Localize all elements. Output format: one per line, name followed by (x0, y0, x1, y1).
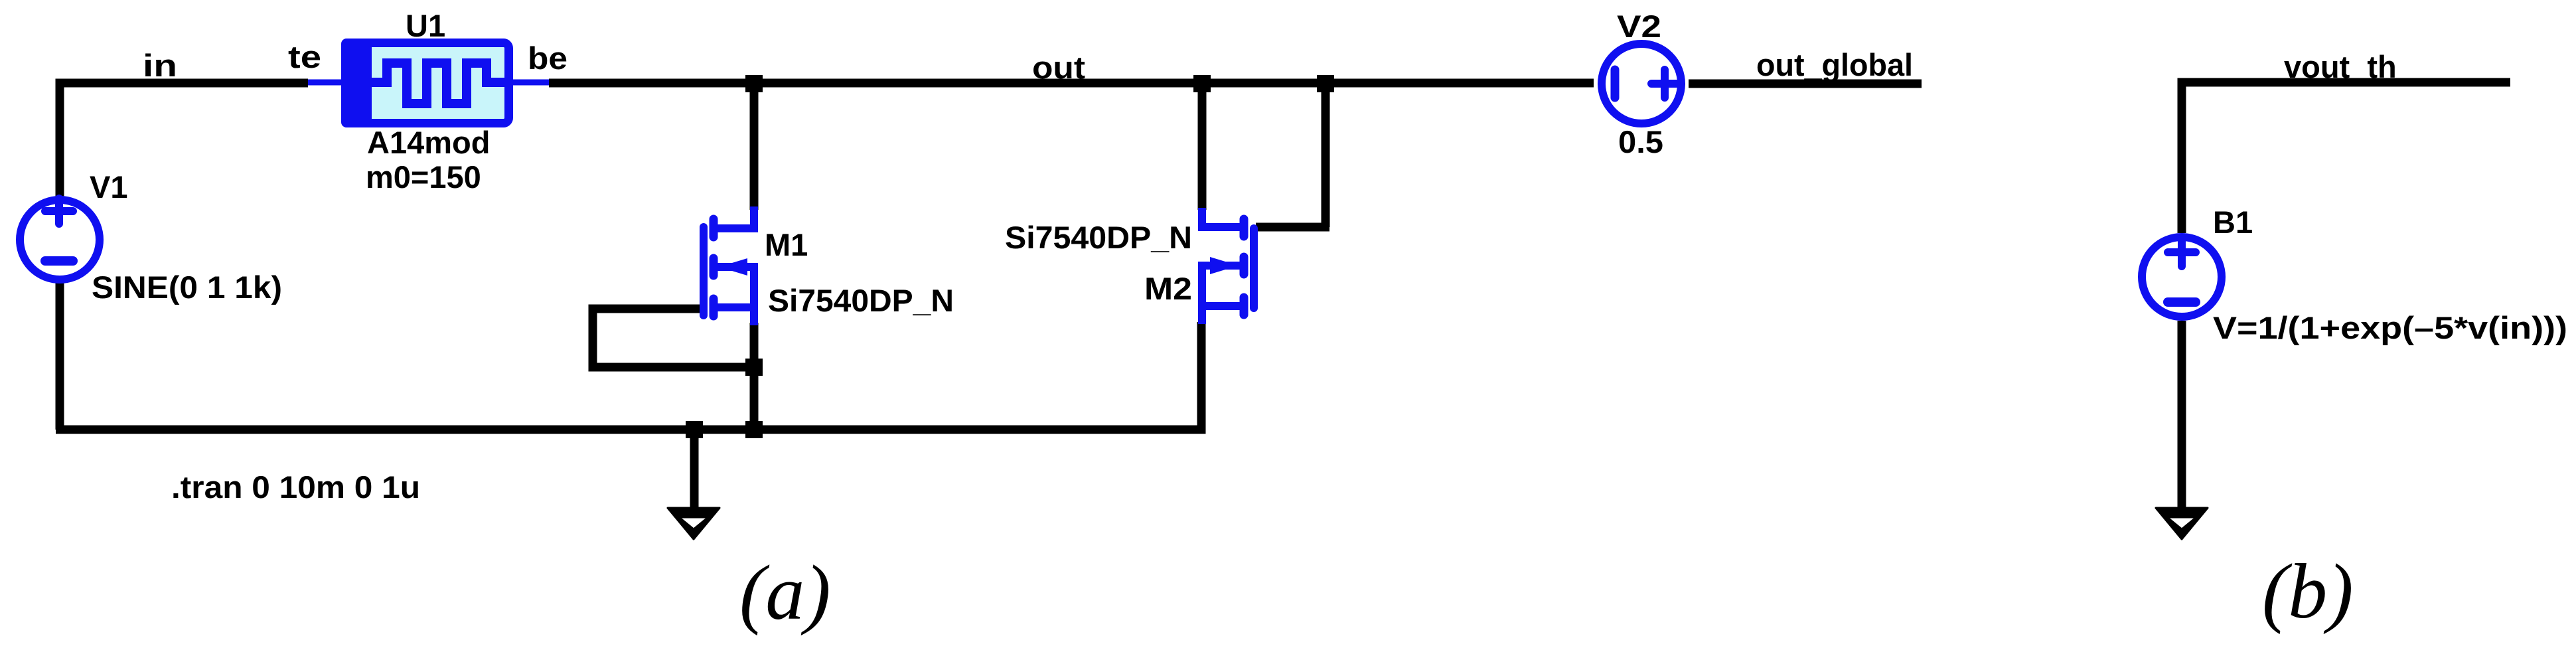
junction M1 source on rail (745, 421, 763, 438)
svg-text:A14mod: A14mod (367, 125, 490, 160)
ground symbol (b) (2156, 508, 2208, 539)
svg-text:U1: U1 (406, 8, 445, 43)
wire bottom ground rail from V1 minus to M2 source (56, 282, 1201, 430)
memristor U1 lead be (506, 80, 549, 86)
wire M1 gate return (593, 309, 754, 367)
svg-text:M2: M2 (1144, 271, 1192, 306)
svg-text:out_global: out_global (1756, 47, 1913, 82)
junction M1 gate-source tie (745, 359, 763, 376)
ground symbol (a) (668, 508, 720, 539)
wire net out: from U1 be terminal to V2 (549, 79, 1594, 88)
wire ground stem (a) (690, 430, 699, 509)
wire M1 drain (750, 83, 759, 210)
memristor U1 body (341, 39, 511, 127)
svg-text:Si7540DP_N: Si7540DP_N (1005, 220, 1192, 255)
junction ground stem on rail (686, 421, 703, 438)
voltage source V1 (20, 199, 100, 280)
wire net vout_th from B1 plus (2182, 82, 2510, 233)
svg-text:out: out (1032, 50, 1085, 85)
svg-text:B1: B1 (2213, 204, 2253, 240)
junction on out net at M2 drain (1193, 75, 1211, 92)
wire M1 source (750, 323, 759, 430)
svg-text:V1: V1 (90, 169, 128, 204)
junction on out net at M1 drain (745, 75, 763, 92)
wire M2 drain (1198, 83, 1207, 210)
wire B1 minus to ground (2178, 321, 2186, 509)
wire M2 gate (1256, 83, 1329, 227)
wire net out_global from V2 (1689, 80, 1922, 88)
behavioral source B1 (2142, 237, 2222, 317)
svg-text:M1: M1 (765, 227, 808, 262)
nmos transistor M2 (mirrored) (1202, 208, 1254, 324)
svg-text:vout_th: vout_th (2284, 49, 2397, 84)
svg-text:SINE(0 1 1k): SINE(0 1 1k) (92, 270, 282, 305)
svg-text:te: te (288, 39, 321, 74)
svg-text:be: be (528, 41, 568, 76)
svg-text:Si7540DP_N: Si7540DP_N (768, 283, 954, 318)
svg-text:m0=150: m0=150 (366, 159, 481, 195)
memristor U1 lead te (308, 80, 348, 86)
svg-text:.tran 0 10m 0 1u: .tran 0 10m 0 1u (171, 469, 420, 505)
wire net in: top-left loop from U1 te terminal to V1 plus (60, 83, 308, 197)
junction on out net at M2 gate (1317, 75, 1334, 92)
voltage source V2 (horizontal) (1602, 44, 1681, 123)
svg-text:(b): (b) (2262, 548, 2354, 635)
svg-text:(a): (a) (739, 549, 831, 636)
svg-text:V=1/(1+exp(–5*v(in))): V=1/(1+exp(–5*v(in))) (2213, 310, 2567, 345)
svg-text:in: in (143, 48, 177, 83)
svg-text:V2: V2 (1617, 9, 1661, 44)
svg-text:0.5: 0.5 (1618, 124, 1663, 159)
nmos transistor M1 (704, 206, 754, 325)
